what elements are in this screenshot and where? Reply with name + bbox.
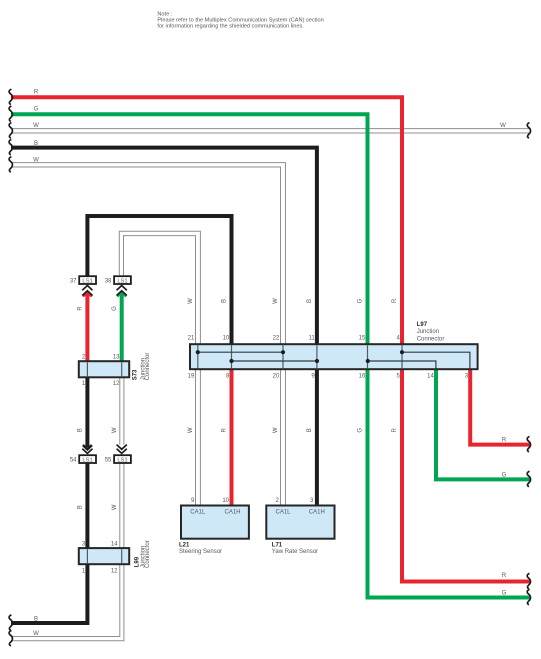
svg-text:54: 54 (70, 458, 77, 464)
svg-text:B: B (222, 299, 228, 303)
svg-text:1: 1 (82, 569, 86, 575)
svg-text:Yaw Rate Sensor: Yaw Rate Sensor (272, 549, 318, 555)
svg-text:W: W (33, 631, 39, 637)
svg-text:22: 22 (273, 335, 280, 341)
svg-text:S73: S73 (132, 369, 138, 380)
svg-text:B: B (34, 141, 38, 147)
svg-text:B: B (307, 428, 313, 432)
svg-text:G: G (112, 306, 118, 311)
svg-text:38: 38 (105, 279, 112, 285)
svg-text:W: W (112, 427, 118, 433)
svg-text:R: R (392, 427, 398, 432)
svg-text:G: G (34, 106, 39, 112)
svg-text:3: 3 (465, 374, 469, 380)
svg-text:2: 2 (82, 355, 86, 361)
svg-text:16: 16 (359, 374, 366, 380)
svg-text:L71: L71 (272, 543, 283, 549)
svg-text:G: G (358, 298, 364, 303)
svg-text:8: 8 (226, 374, 230, 380)
svg-text:W: W (188, 427, 194, 433)
svg-text:3: 3 (310, 498, 314, 504)
svg-text:for information regarding the: for information regarding the shielded c… (157, 23, 304, 29)
svg-text:Connector: Connector (417, 336, 445, 342)
svg-text:CA1H: CA1H (309, 509, 325, 515)
svg-text:Steering Sensor: Steering Sensor (179, 549, 222, 555)
svg-text:14: 14 (427, 374, 434, 380)
svg-text:19: 19 (188, 374, 195, 380)
svg-text:1: 1 (82, 381, 86, 387)
svg-text:R: R (78, 306, 84, 311)
svg-text:R: R (34, 89, 39, 95)
svg-text:W: W (33, 157, 39, 163)
svg-text:R: R (502, 573, 507, 579)
svg-text:CA1L: CA1L (276, 509, 292, 515)
svg-text:W: W (188, 298, 194, 304)
svg-text:CA1H: CA1H (225, 509, 241, 515)
svg-text:B: B (307, 299, 313, 303)
svg-text:20: 20 (273, 374, 280, 380)
svg-text:R: R (502, 437, 507, 443)
svg-text:L99: L99 (134, 556, 140, 567)
svg-text:G: G (502, 590, 507, 596)
svg-text:L21: L21 (179, 543, 190, 549)
svg-text:10: 10 (222, 498, 229, 504)
svg-text:LS1: LS1 (82, 458, 92, 464)
svg-text:15: 15 (359, 335, 366, 341)
svg-text:9: 9 (191, 498, 195, 504)
svg-text:Connector: Connector (145, 353, 151, 381)
svg-text:B: B (78, 505, 84, 509)
svg-text:B: B (34, 617, 38, 623)
svg-text:R: R (222, 427, 228, 432)
svg-text:55: 55 (105, 458, 112, 464)
svg-text:13: 13 (113, 355, 120, 361)
svg-text:Connector: Connector (145, 540, 151, 568)
svg-text:9: 9 (311, 374, 315, 380)
svg-text:3: 3 (82, 542, 86, 548)
svg-text:21: 21 (188, 335, 195, 341)
svg-text:W: W (112, 504, 118, 510)
svg-text:B: B (78, 428, 84, 432)
svg-text:LS1: LS1 (82, 279, 92, 285)
svg-text:2: 2 (276, 498, 280, 504)
svg-text:12: 12 (111, 569, 118, 575)
svg-text:W: W (500, 123, 506, 129)
svg-text:37: 37 (70, 279, 77, 285)
svg-text:R: R (392, 298, 398, 303)
svg-text:Junction: Junction (417, 329, 439, 335)
svg-text:W: W (33, 123, 39, 129)
svg-text:W: W (273, 298, 279, 304)
svg-text:4: 4 (396, 335, 400, 341)
svg-text:LS1: LS1 (117, 279, 127, 285)
svg-text:11: 11 (308, 335, 315, 341)
svg-text:G: G (358, 428, 364, 433)
svg-text:G: G (502, 472, 507, 478)
svg-text:LS1: LS1 (117, 458, 127, 464)
svg-text:14: 14 (111, 542, 118, 548)
svg-text:L97: L97 (417, 322, 428, 328)
svg-text:5: 5 (396, 374, 400, 380)
svg-text:CA1L: CA1L (190, 509, 206, 515)
svg-text:10: 10 (223, 335, 230, 341)
svg-text:12: 12 (113, 381, 120, 387)
svg-text:W: W (273, 427, 279, 433)
